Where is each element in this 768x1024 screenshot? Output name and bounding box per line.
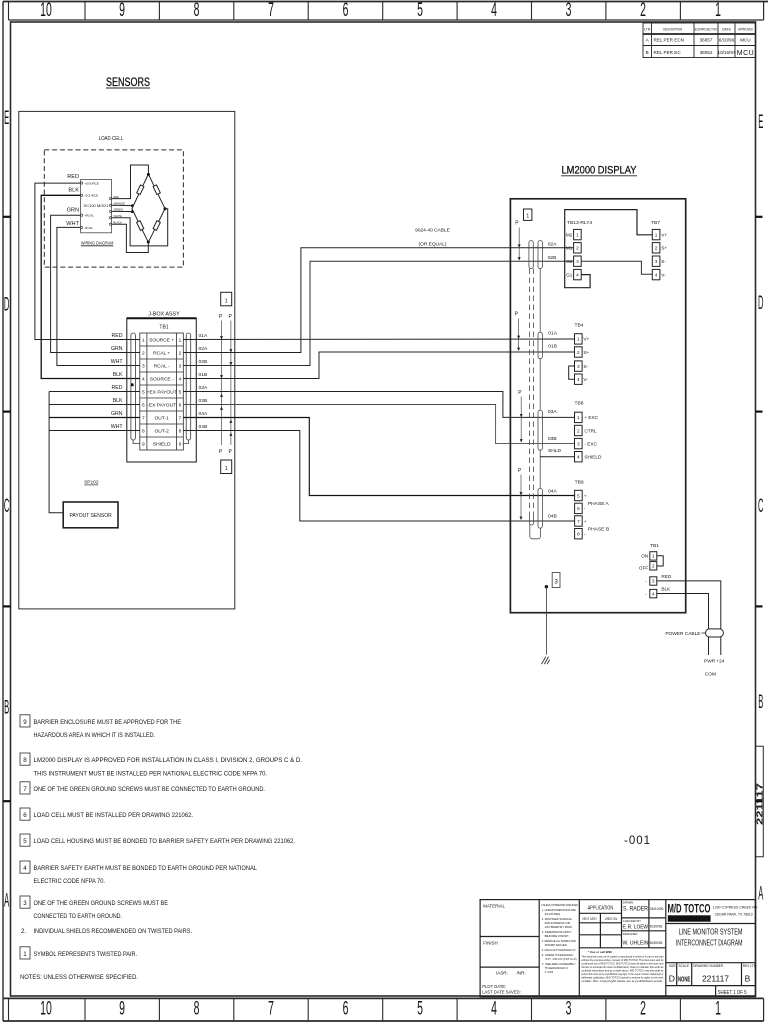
signature cells <box>623 901 664 947</box>
svg-text:TB1: TB1 <box>650 543 659 549</box>
title block <box>480 900 757 997</box>
note 1 <box>20 947 30 959</box>
svg-text:BLK: BLK <box>113 372 123 378</box>
power cable symbol <box>665 629 723 637</box>
svg-text:9: 9 <box>119 0 125 21</box>
svg-text:4: 4 <box>179 376 182 382</box>
svg-text:RED: RED <box>112 385 123 391</box>
load cell lead labels <box>66 174 79 227</box>
svg-text:V+: V+ <box>583 337 589 342</box>
wire 03B TB1-6 to TB8-3 <box>183 405 574 444</box>
svg-text:SOURCE +: SOURCE + <box>149 338 174 344</box>
svg-text:6: 6 <box>343 998 349 1019</box>
svg-text:3: 3 <box>655 259 658 264</box>
svg-text:7: 7 <box>268 998 274 1019</box>
svg-text:WHT: WHT <box>111 424 124 430</box>
svg-text:conditional use of M/D TOTCO.: conditional use of M/D TOTCO. M/D TOTCO … <box>581 962 663 966</box>
right zone letters E-A <box>758 112 763 905</box>
svg-text:10: 10 <box>40 998 52 1019</box>
capsule pair 03 <box>538 410 542 450</box>
wire RED power to +24 <box>657 581 721 655</box>
tolerance column <box>541 903 578 974</box>
material/finish column <box>480 936 539 938</box>
earth ground symbol <box>542 657 550 665</box>
svg-text:03B: 03B <box>199 398 208 404</box>
svg-text:9: 9 <box>142 441 145 447</box>
svg-text:TB13-RLY4: TB13-RLY4 <box>567 220 592 226</box>
svg-text:POWER CABLE: POWER CABLE <box>665 631 700 637</box>
svg-text:+: + <box>584 493 587 498</box>
svg-text:1200 CYPRESS CREEK RD: 1200 CYPRESS CREEK RD <box>713 904 758 909</box>
svg-text:1: 1 <box>526 214 529 220</box>
svg-text:-001: -001 <box>624 835 651 847</box>
svg-text:8: 8 <box>142 428 145 434</box>
svg-text:LOAD CELL MUST BE INSTALLED PE: LOAD CELL MUST BE INSTALLED PER DRAWING … <box>34 812 194 819</box>
svg-text:REL PER ECN: REL PER ECN <box>654 38 684 43</box>
svg-text:6/30/96: 6/30/96 <box>650 941 663 945</box>
svg-text:OFF: OFF <box>639 566 649 571</box>
svg-text:FINISH: FINISH <box>483 941 497 946</box>
svg-text:BLK: BLK <box>661 587 671 592</box>
svg-text:9: 9 <box>179 441 182 447</box>
svg-text:3: 3 <box>577 441 580 446</box>
M/D TOTCO logo <box>668 904 711 922</box>
svg-text:M/D TOTCO: M/D TOTCO <box>668 904 711 916</box>
svg-text:5: 5 <box>577 493 580 498</box>
svg-text:RCAL -: RCAL - <box>154 364 170 370</box>
load cell dashed enclosure <box>44 150 183 267</box>
svg-text:CEDAR PARK, TX 78613: CEDAR PARK, TX 78613 <box>715 911 753 916</box>
gauge element bottom-left <box>137 221 144 231</box>
power switch terminal TB1 <box>639 543 672 598</box>
svg-text:without the express written co: without the express written consent of M… <box>581 958 664 962</box>
svg-text:2: 2 <box>640 0 646 21</box>
svg-text:SC100 MOD1: SC100 MOD1 <box>84 203 110 208</box>
svg-text:WIRING DIAGRAM: WIRING DIAGRAM <box>81 241 114 246</box>
svg-text:/ASR:: /ASR: <box>496 971 508 976</box>
svg-text:LAST DATE SAVED:: LAST DATE SAVED: <box>482 990 521 995</box>
wire RED lead to TB1-1 <box>35 183 140 339</box>
TB1 right wire tags <box>199 333 208 430</box>
svg-text:LTR: LTR <box>644 27 651 31</box>
svg-text:NOTES: UNLESS OTHERWISE SPECI: NOTES: UNLESS OTHERWISE SPECIFIED. <box>20 974 138 981</box>
wire BLK power to COM <box>657 594 709 656</box>
svg-text:8: 8 <box>194 0 200 21</box>
svg-text:4: 4 <box>142 376 145 382</box>
svg-text:7: 7 <box>23 786 27 793</box>
svg-text:A: A <box>4 891 9 912</box>
svg-text:LM2000 DISPLAY: LM2000 DISPLAY <box>562 165 638 177</box>
svg-text:LOAD CELL: LOAD CELL <box>99 136 124 142</box>
svg-text:+EX PAYOUT: +EX PAYOUT <box>147 390 177 396</box>
cable jacket solid line segments <box>539 269 541 489</box>
svg-text:03A: 03A <box>199 385 208 391</box>
diamond edges <box>132 174 165 242</box>
on-off jumper <box>657 556 663 566</box>
svg-text:(OR EQUAL): (OR EQUAL) <box>419 242 447 248</box>
svg-text:02A: 02A <box>199 346 208 352</box>
svg-text:- EXC: - EXC <box>584 441 597 446</box>
svg-text:5: 5 <box>417 0 423 21</box>
svg-text:+24: +24 <box>716 659 724 665</box>
wiring diagram label <box>81 241 114 246</box>
svg-text:4: 4 <box>576 272 579 277</box>
svg-text:D: D <box>758 293 763 314</box>
svg-text:10: 10 <box>40 0 52 21</box>
bottom strip top line <box>3 997 764 999</box>
terminal block TB1 grid <box>140 333 184 450</box>
svg-text:B: B <box>758 692 763 713</box>
svg-text:V+: V+ <box>661 232 667 237</box>
wire 02A TB1-2 to relay M1 <box>183 248 573 353</box>
shield junction square <box>131 383 134 386</box>
svg-text:TB9: TB9 <box>575 480 584 486</box>
svg-text:M2: M2 <box>566 232 573 237</box>
svg-text:RED: RED <box>67 174 79 180</box>
svg-text:8: 8 <box>577 532 580 537</box>
svg-text:under the copyright laws as a: under the copyright laws as a published … <box>581 979 663 983</box>
svg-text:1: 1 <box>577 337 580 342</box>
svg-text:5: 5 <box>142 389 145 395</box>
SENSORS title <box>106 77 150 89</box>
svg-text:LM2000 DISPLAY IS APPROVED FOR: LM2000 DISPLAY IS APPROVED FOR INSTALLAT… <box>34 757 303 764</box>
svg-text:TB7: TB7 <box>651 220 660 226</box>
svg-text:A: A <box>758 884 763 905</box>
svg-text:MCU: MCU <box>737 50 754 57</box>
svg-text:8: 8 <box>23 757 27 764</box>
svg-text:5: 5 <box>179 389 182 395</box>
svg-text:7: 7 <box>179 415 182 421</box>
svg-text:UNLESS OTHERWISE SPECIFIED: UNLESS OTHERWISE SPECIFIED <box>541 903 578 907</box>
svg-text:9: 9 <box>23 719 27 726</box>
svg-text:COM: COM <box>705 671 716 677</box>
svg-text:01B: 01B <box>548 343 557 349</box>
svg-text:2: 2 <box>577 350 580 355</box>
svg-text:4: 4 <box>655 272 658 277</box>
twisted pair capsule right <box>186 333 191 440</box>
top zone numbers 10-1 <box>40 0 721 21</box>
svg-text:REV LTR: REV LTR <box>743 964 757 968</box>
cable entry capsule pair 02 left <box>529 241 533 269</box>
bottom zone numbers 10-1 <box>40 998 721 1019</box>
drawing number side tab 221117 <box>754 746 764 857</box>
totco section rows <box>666 923 756 925</box>
svg-text:G2: G2 <box>566 259 573 264</box>
svg-text:E: E <box>758 112 763 133</box>
svg-text:5. ANGULAR TOLERANCES ±2°: 5. ANGULAR TOLERANCES ±2° <box>542 948 577 952</box>
svg-text:BARRIER ENCLOSURE MUST BE APPR: BARRIER ENCLOSURE MUST BE APPROVED FOR T… <box>34 719 182 726</box>
legal fine print <box>581 950 664 983</box>
svg-text:DATE: DATE <box>722 27 732 31</box>
svg-text:V-: V- <box>583 377 588 382</box>
svg-text:6/10/96: 6/10/96 <box>719 38 735 43</box>
svg-text:D: D <box>4 295 9 316</box>
svg-text:03A: 03A <box>548 409 557 415</box>
svg-text:1: 1 <box>23 951 27 958</box>
svg-text:C: C <box>758 496 763 517</box>
svg-text:INDIVIDUAL SHIELDS RECOMMENDED: INDIVIDUAL SHIELDS RECOMMENDED ON TWISTE… <box>34 928 193 935</box>
svg-text:04B: 04B <box>199 424 208 430</box>
svg-text:DESIGNED: DESIGNED <box>623 932 638 936</box>
svg-text:02A: 02A <box>548 241 557 247</box>
wire G1 loop to TB7-1 <box>565 210 653 288</box>
notes list <box>20 715 302 981</box>
svg-text:GRN: GRN <box>67 208 79 214</box>
svg-text:G1: G1 <box>566 272 573 277</box>
svg-text:-RCAL: -RCAL <box>84 226 93 230</box>
note 7 <box>20 782 30 794</box>
svg-text:3: 3 <box>23 900 27 907</box>
svg-text:This document may not be copie: This document may not be copied or repro… <box>581 955 664 959</box>
svg-text:3: 3 <box>576 259 579 264</box>
payout sensor box <box>63 502 118 528</box>
TB1 terminal numbers left <box>142 337 145 447</box>
sensors enclosure box <box>19 111 235 609</box>
capsule pair 01 <box>538 332 542 359</box>
svg-text:NONE: NONE <box>678 975 690 984</box>
bridge junction dots <box>131 173 167 244</box>
svg-text:7: 7 <box>268 0 274 21</box>
svg-text:RED: RED <box>112 333 123 339</box>
left zone ticks <box>3 217 11 801</box>
svg-text:thereto to exclude this work c: thereto to exclude this work confidentia… <box>581 965 664 969</box>
svg-text:CTRL: CTRL <box>584 428 597 433</box>
svg-text:SOURCE -: SOURCE - <box>150 377 174 383</box>
svg-text:MCU: MCU <box>740 38 750 43</box>
svg-text:BARRIER SAFETY EARTH MUST BE B: BARRIER SAFETY EARTH MUST BE BONDED TO E… <box>34 865 258 872</box>
SHLD wire to TB8-4 <box>540 456 574 458</box>
svg-text:RCAL +: RCAL + <box>153 351 170 357</box>
signal conditioner SC100 MOD1 box <box>81 180 126 233</box>
wire sc100 ORANGE to bridge left upper <box>112 204 133 206</box>
svg-text:BLK: BLK <box>68 187 79 193</box>
svg-text:MATERIAL: MATERIAL <box>483 904 505 909</box>
svg-text:+SOURCE: +SOURCE <box>84 182 99 186</box>
signature column <box>665 900 667 997</box>
svg-text:PWR: PWR <box>704 659 716 665</box>
junction box outline <box>127 318 197 462</box>
svg-text:02B: 02B <box>199 359 208 365</box>
svg-text:SHEET 1 OF 5: SHEET 1 OF 5 <box>718 990 747 996</box>
svg-text:5: 5 <box>417 998 423 1019</box>
capsule pair 04 <box>538 488 542 528</box>
bottom strip bottom line <box>3 1020 764 1022</box>
wire sc100 GREEN to bridge left lower <box>112 210 133 212</box>
svg-text:38052: 38052 <box>700 50 713 55</box>
svg-text:B: B <box>745 974 751 984</box>
LM2000 wire tags at entry <box>548 241 562 519</box>
svg-text:1: 1 <box>576 232 579 237</box>
ground junction dot <box>545 585 548 588</box>
gauge element top-right <box>153 185 160 195</box>
wire GRN lead to TB1-2 <box>51 215 140 352</box>
svg-text:03B: 03B <box>548 436 557 442</box>
ground wire <box>545 587 547 655</box>
svg-text:1: 1 <box>179 337 182 343</box>
svg-text:+RCAL: +RCAL <box>84 214 94 218</box>
wire WHT lead to TB1-3 <box>57 227 140 365</box>
svg-text:± 1/16: ± 1/16 <box>545 970 554 974</box>
LM2000 display box <box>510 199 685 613</box>
svg-text:TB8: TB8 <box>575 401 584 407</box>
svg-text:1: 1 <box>577 415 580 420</box>
payout sensor bundle wires rows 5-8 <box>49 392 140 513</box>
svg-text:04B: 04B <box>548 514 557 520</box>
top strip top line <box>3 1 768 3</box>
svg-text:BEFORE FINISH: BEFORE FINISH <box>545 934 569 938</box>
svg-text:S+: S+ <box>661 246 667 251</box>
svg-text:3: 3 <box>577 364 580 369</box>
svg-text:6: 6 <box>23 812 27 819</box>
left zone letters E-A <box>4 108 9 912</box>
svg-text:7: 7 <box>577 519 580 524</box>
svg-text:DRAWN: DRAWN <box>623 901 633 905</box>
note 9 <box>20 715 30 727</box>
svg-text:TB1: TB1 <box>159 325 168 331</box>
note ref box 1 upper <box>221 292 232 306</box>
svg-text:ONE OF THE GREEN GROUND SCREWS: ONE OF THE GREEN GROUND SCREWS MUST BE <box>34 900 169 907</box>
TB1 terminal names <box>147 338 177 448</box>
top strip bottom line <box>9 19 764 21</box>
svg-text:1: 1 <box>655 232 658 237</box>
svg-text:-SOURCE: -SOURCE <box>84 194 98 198</box>
svg-text:W. UHLEIN: W. UHLEIN <box>623 941 649 947</box>
svg-text:04A: 04A <box>199 411 208 417</box>
svg-text:WHT: WHT <box>66 221 79 227</box>
svg-text:5: 5 <box>23 838 27 845</box>
shield hook left to row9 <box>133 440 140 444</box>
svg-text:+ EXC: + EXC <box>584 415 598 420</box>
cable shield dashed pair <box>530 269 534 518</box>
svg-text:M1: M1 <box>566 246 573 251</box>
svg-text:ELECTRIC CODE NFPA 70.: ELECTRIC CODE NFPA 70. <box>34 878 106 885</box>
terminal block TB4 <box>569 323 590 385</box>
svg-text:SHIELD: SHIELD <box>584 455 602 460</box>
svg-text:+: + <box>584 519 587 524</box>
note ref box 1 in LM2000 <box>524 209 532 220</box>
svg-text:4: 4 <box>23 865 27 872</box>
TB4 jumper 3 to 4 <box>569 366 575 379</box>
svg-text:3: 3 <box>554 579 558 586</box>
svg-text:2.: 2. <box>21 928 26 935</box>
svg-text:OUT-1: OUT-1 <box>154 416 169 422</box>
note ref box 3 <box>552 573 560 588</box>
svg-text:8: 8 <box>179 428 182 434</box>
svg-text:J-BOX ASSY: J-BOX ASSY <box>148 312 180 318</box>
TB1 left lead color labels <box>111 333 124 430</box>
svg-text:S-: S- <box>661 259 666 264</box>
strain gauge bridge <box>132 174 165 242</box>
svg-text:deliberate publication, M/D TO: deliberate publication, M/D TOTCO intend… <box>581 976 664 980</box>
svg-text:6: 6 <box>179 402 182 408</box>
svg-text:TB4: TB4 <box>575 323 584 329</box>
gauge element top-left <box>137 185 144 195</box>
svg-text:HAZARDOUS AREA IN WHICH IT IS: HAZARDOUS AREA IN WHICH IT IS INSTALLED. <box>34 732 156 739</box>
svg-text:BLK: BLK <box>113 398 123 404</box>
svg-text:WHT: WHT <box>111 359 124 365</box>
svg-text:2: 2 <box>655 246 658 251</box>
svg-text:SCALE: SCALE <box>679 964 689 968</box>
svg-text:DESCRIPTION: DESCRIPTION <box>663 27 682 31</box>
svg-text:02B: 02B <box>548 255 557 261</box>
svg-text:3: 3 <box>179 363 182 369</box>
svg-text:OUT-2: OUT-2 <box>154 429 169 435</box>
svg-text:ECN/PROJECT NO: ECN/PROJECT NO <box>695 27 718 31</box>
terminal block TB7 <box>651 220 667 280</box>
svg-text:221117: 221117 <box>754 783 764 825</box>
svg-text:01B: 01B <box>199 372 208 378</box>
twisted pair P arrows at J-box <box>219 314 233 455</box>
wire G2 to TB7-4 <box>581 261 652 274</box>
svg-text:2: 2 <box>577 428 580 433</box>
cable end big U <box>530 524 541 539</box>
svg-text:10/16/97: 10/16/97 <box>718 50 736 55</box>
svg-text:B: B <box>4 698 9 719</box>
bottom zone strip cell dividers <box>9 998 681 1021</box>
terminal block TB8 <box>575 401 602 462</box>
svg-text:06/10/96: 06/10/96 <box>650 907 664 911</box>
TB1 terminal numbers right <box>179 337 182 447</box>
relay terminal TB13-RLY4 <box>566 220 593 280</box>
terminal block TB9 <box>575 480 610 539</box>
svg-text:INTERCONNECT DIAGRAM: INTERCONNECT DIAGRAM <box>676 937 743 947</box>
svg-text:9: 9 <box>119 998 125 1019</box>
wire 04B TB1-8 to TB9-7 <box>183 431 574 522</box>
wire 04A TB1-7 to TB9-5 <box>183 418 574 496</box>
svg-text:SHIELD: SHIELD <box>153 442 171 448</box>
note 6 <box>20 808 30 820</box>
svg-text:2: 2 <box>640 998 646 1019</box>
svg-text:/NR:: /NR: <box>517 971 526 976</box>
svg-text:PHASE A: PHASE A <box>588 501 610 507</box>
svg-text:B: B <box>646 50 649 55</box>
svg-text:S+: S+ <box>583 350 589 355</box>
svg-text:36657: 36657 <box>700 38 713 43</box>
svg-text:-EX PAYOUT: -EX PAYOUT <box>147 403 176 409</box>
svg-text:4: 4 <box>491 998 497 1019</box>
svg-text:2: 2 <box>576 246 579 251</box>
svg-text:1: 1 <box>715 0 721 21</box>
node SP102 <box>84 480 99 486</box>
svg-text:ONE OF THE GREEN GROUND SCREWS: ONE OF THE GREEN GROUND SCREWS MUST BE C… <box>34 786 266 793</box>
svg-text:E: E <box>4 108 9 129</box>
svg-text:.XX? .XXLXX (XXX.X+X): .XX? .XXLXX (XXX.X+X) <box>545 957 577 961</box>
wire 03A TB1-5 to TB8-1 <box>183 392 574 418</box>
svg-text:3: 3 <box>142 363 145 369</box>
svg-text:1: 1 <box>715 998 721 1019</box>
svg-text:SYMBOL REPRESENTS TWISTED PAIR: SYMBOL REPRESENTS TWISTED PAIR. <box>34 951 138 958</box>
svg-text:SHLD: SHLD <box>548 448 562 454</box>
svg-text:S. RADER: S. RADER <box>623 907 649 913</box>
svg-text:PLOT DATE:: PLOT DATE: <box>482 984 506 989</box>
svg-text:1: 1 <box>225 466 228 472</box>
svg-text:LOAD CELL HOUSING MUST BE BOND: LOAD CELL HOUSING MUST BE BONDED TO BARR… <box>34 838 296 845</box>
svg-text:6: 6 <box>343 0 349 21</box>
svg-text:THIS INSTRUMENT MUST BE INSTAL: THIS INSTRUMENT MUST BE INSTALLED PER NA… <box>34 771 268 778</box>
svg-text:DRAWING NUMBER: DRAWING NUMBER <box>693 964 724 968</box>
svg-text:protect this work as an unpubl: protect this work as an unpublished copy… <box>581 972 663 976</box>
wire sc100 RED to bridge top <box>112 165 149 199</box>
PWR +24 COM labels <box>704 659 725 678</box>
svg-text:C: C <box>4 496 9 517</box>
wire BLK lead to TB1-4 <box>41 195 140 378</box>
wire 01A TB1-1 to TB4-1 <box>183 338 574 341</box>
svg-text:USED ON: USED ON <box>605 917 618 921</box>
svg-text:RED: RED <box>661 574 672 579</box>
wire 02B TB1-3 to relay G2 <box>183 261 573 365</box>
svg-text:6/30/96: 6/30/96 <box>650 925 663 929</box>
cable end small U <box>530 517 534 525</box>
